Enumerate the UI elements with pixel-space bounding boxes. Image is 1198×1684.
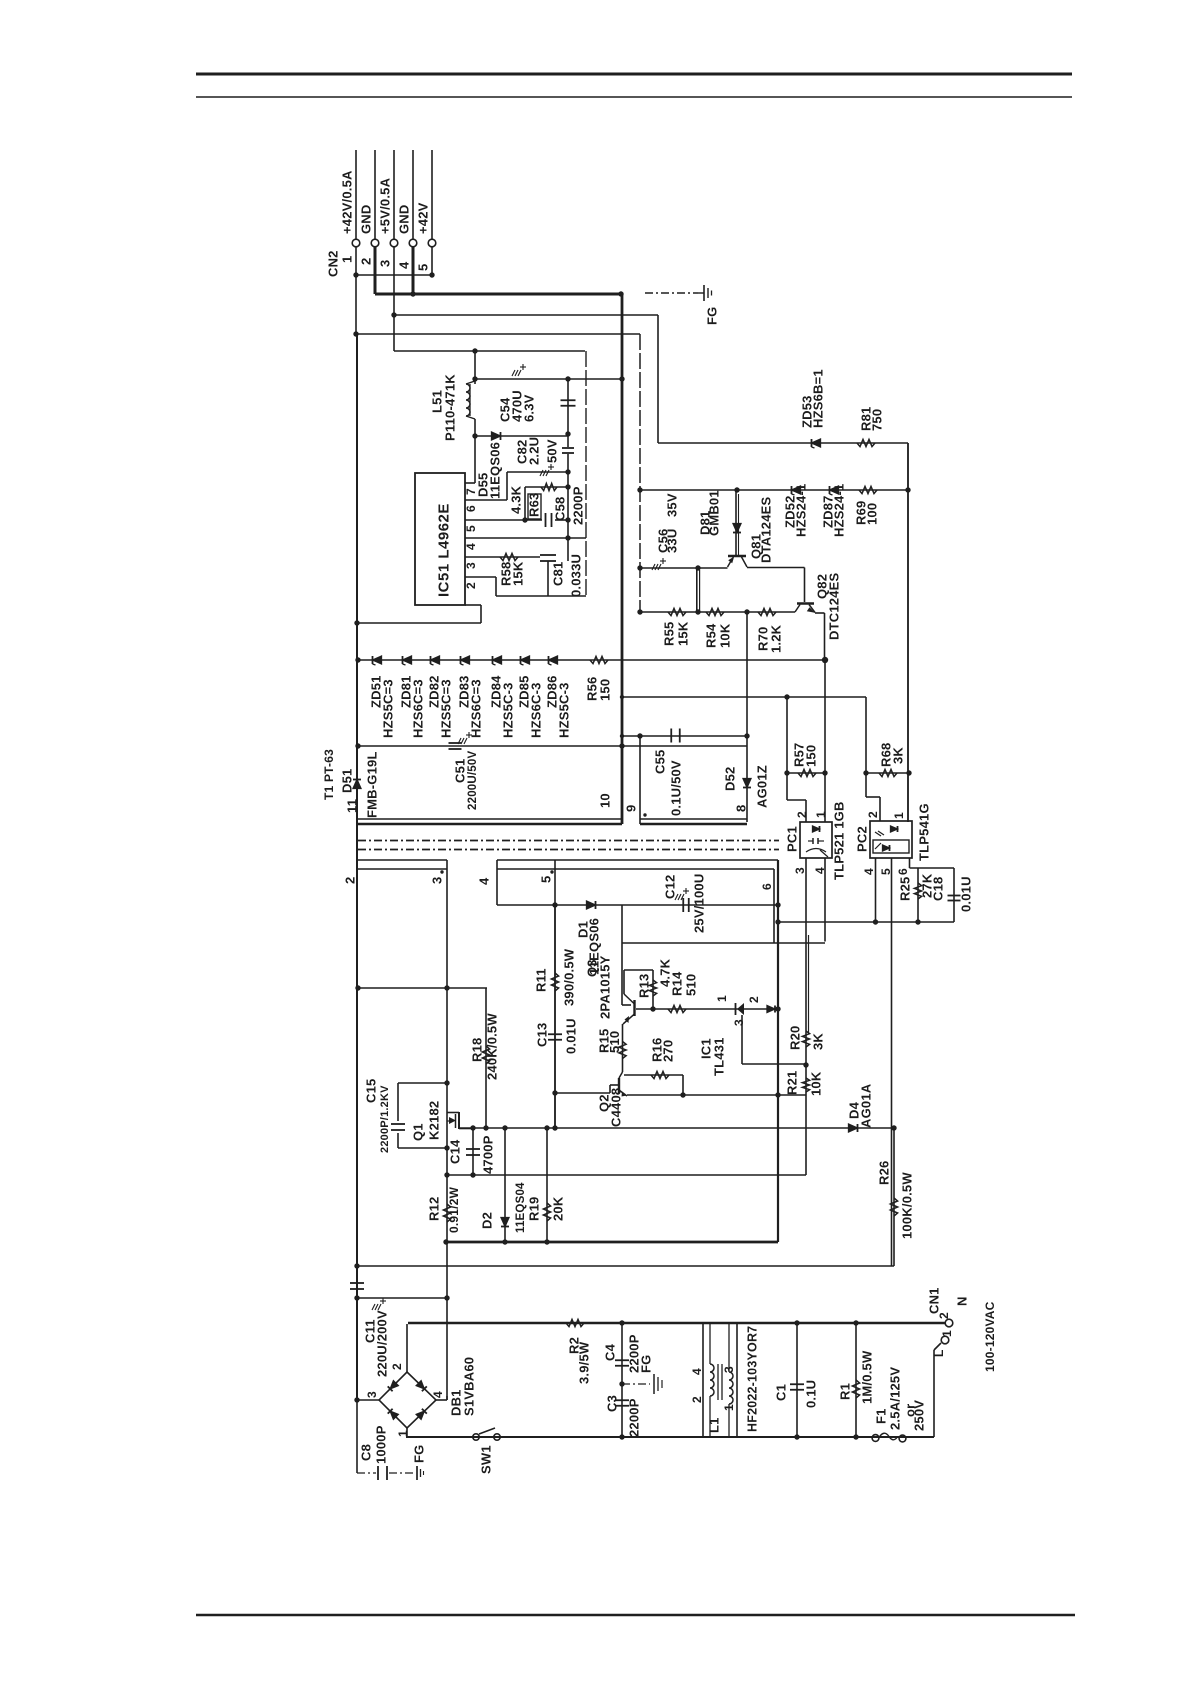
svg-text:FG: FG: [412, 1445, 427, 1463]
svg-text:R55: R55: [662, 622, 677, 646]
svg-text:2200P: 2200P: [627, 1334, 642, 1373]
svg-text:C8: C8: [359, 1444, 374, 1461]
svg-text:0.1U/50V: 0.1U/50V: [669, 760, 684, 816]
svg-text:2.5A/125V: 2.5A/125V: [888, 1367, 903, 1430]
svg-text:2200P: 2200P: [627, 1398, 642, 1437]
svg-text:GND: GND: [397, 205, 412, 235]
svg-text:2: 2: [343, 877, 358, 884]
svg-text:3.9/5W: 3.9/5W: [577, 1341, 592, 1384]
svg-text:4.3K: 4.3K: [509, 485, 524, 514]
svg-text:10: 10: [598, 793, 613, 808]
svg-text:2200U/50V: 2200U/50V: [467, 751, 479, 810]
svg-text:2200P/1.2KV: 2200P/1.2KV: [379, 1085, 391, 1153]
svg-text:N: N: [955, 1296, 970, 1306]
svg-text:HZS24-1: HZS24-1: [832, 484, 847, 537]
svg-text:D2: D2: [480, 1212, 495, 1229]
svg-text:4: 4: [862, 868, 876, 875]
svg-text:2: 2: [866, 811, 880, 818]
svg-text:IC51 L4962E: IC51 L4962E: [435, 503, 452, 597]
svg-text:C12: C12: [663, 875, 678, 899]
svg-text:10K: 10K: [809, 1071, 824, 1096]
svg-text:50V: 50V: [545, 439, 560, 463]
svg-text:HZS5C=3: HZS5C=3: [439, 679, 454, 738]
svg-text:150: 150: [598, 679, 613, 701]
svg-text:Q1: Q1: [411, 1123, 426, 1141]
svg-text:HZS6C=3: HZS6C=3: [411, 679, 426, 738]
svg-text:3: 3: [793, 867, 807, 874]
svg-text:HZS5C-3: HZS5C-3: [501, 682, 516, 738]
svg-text:HZS5C=3: HZS5C=3: [381, 679, 396, 738]
svg-text:1M/0.5W: 1M/0.5W: [860, 1350, 875, 1404]
svg-text:R12: R12: [427, 1197, 442, 1221]
svg-text:D51: D51: [340, 769, 355, 793]
svg-text:1000P: 1000P: [374, 1425, 389, 1464]
svg-text:P110-471K: P110-471K: [443, 374, 458, 441]
svg-text:3K: 3K: [891, 747, 906, 764]
svg-text:0.01U: 0.01U: [564, 1018, 579, 1054]
svg-text:100-120VAC: 100-120VAC: [983, 1301, 997, 1372]
svg-text:FG: FG: [705, 307, 720, 325]
svg-text:AG01A: AG01A: [859, 1083, 874, 1128]
svg-text:GND: GND: [359, 205, 374, 235]
svg-text:DTC124ES: DTC124ES: [827, 573, 842, 640]
svg-text:R20: R20: [788, 1026, 803, 1050]
svg-text:R19: R19: [527, 1197, 542, 1221]
svg-text:C3: C3: [605, 1395, 620, 1412]
svg-text:1: 1: [722, 1404, 736, 1411]
svg-text:2.2U: 2.2U: [527, 437, 542, 465]
svg-text:HZS24-1: HZS24-1: [794, 484, 809, 537]
svg-text:R25: R25: [898, 877, 913, 901]
svg-text:2: 2: [795, 811, 809, 818]
svg-text:220U/200V: 220U/200V: [375, 1310, 390, 1377]
svg-text:4: 4: [397, 261, 412, 269]
svg-text:K2182: K2182: [427, 1101, 442, 1140]
svg-text:C4: C4: [603, 1343, 618, 1361]
svg-text:HZS6C=3: HZS6C=3: [469, 679, 484, 738]
svg-text:0.033U: 0.033U: [569, 554, 584, 597]
svg-text:1: 1: [340, 256, 355, 263]
svg-text:150: 150: [804, 745, 819, 767]
svg-text:R21: R21: [785, 1071, 800, 1095]
svg-text:R1: R1: [838, 1383, 853, 1400]
svg-text:3K: 3K: [811, 1033, 826, 1050]
svg-text:4: 4: [464, 543, 478, 550]
svg-text:3: 3: [365, 1391, 379, 1398]
svg-text:20K: 20K: [551, 1196, 566, 1221]
svg-text:8: 8: [734, 805, 749, 812]
svg-text:0.91/2W: 0.91/2W: [447, 1186, 461, 1233]
svg-text:4: 4: [477, 877, 492, 885]
svg-text:5: 5: [539, 876, 554, 883]
svg-text:1.2K: 1.2K: [769, 624, 784, 653]
svg-text:250V: 250V: [912, 1400, 927, 1431]
svg-text:0.1U: 0.1U: [804, 1380, 819, 1408]
svg-text:3: 3: [464, 562, 478, 569]
svg-text:6: 6: [760, 883, 774, 890]
svg-text:+5V/0.5A: +5V/0.5A: [378, 177, 393, 234]
svg-text:T1 PT-63: T1 PT-63: [322, 749, 336, 800]
svg-text:C13: C13: [535, 1023, 550, 1047]
svg-text:11EQS06: 11EQS06: [488, 442, 503, 499]
svg-text:3: 3: [732, 1019, 746, 1026]
svg-text:5: 5: [464, 525, 478, 532]
svg-text:5: 5: [416, 264, 431, 271]
svg-text:6: 6: [464, 505, 478, 512]
svg-text:F1: F1: [874, 1408, 889, 1424]
svg-text:35V: 35V: [665, 493, 680, 517]
svg-text:S1VBA60: S1VBA60: [462, 1357, 477, 1416]
svg-text:6.3V: 6.3V: [522, 394, 537, 422]
svg-text:240K/0.5W: 240K/0.5W: [485, 1013, 500, 1080]
svg-text:2200P: 2200P: [571, 486, 586, 525]
svg-text:PC1: PC1: [785, 826, 800, 852]
svg-text:1: 1: [940, 1330, 954, 1337]
svg-text:750: 750: [870, 409, 885, 431]
svg-text:10K: 10K: [718, 623, 733, 648]
svg-text:PC2: PC2: [855, 826, 870, 852]
svg-text:100K/0.5W: 100K/0.5W: [900, 1172, 915, 1239]
svg-text:9: 9: [624, 805, 639, 812]
svg-text:R26: R26: [877, 1161, 892, 1185]
svg-text:3: 3: [378, 260, 393, 267]
svg-text:1: 1: [715, 995, 729, 1002]
svg-text:C1: C1: [774, 1384, 789, 1401]
svg-text:4700P: 4700P: [481, 1135, 496, 1174]
svg-text:L1: L1: [707, 1417, 722, 1433]
svg-text:2: 2: [464, 582, 478, 589]
svg-text:2: 2: [747, 996, 761, 1003]
svg-text:2: 2: [690, 1396, 704, 1403]
svg-text:TLP541G: TLP541G: [917, 803, 932, 861]
svg-text:D52: D52: [723, 767, 738, 791]
svg-text:AG01Z: AG01Z: [755, 765, 770, 808]
svg-text:4: 4: [431, 1391, 445, 1398]
svg-text:HZS6C-3: HZS6C-3: [529, 682, 544, 738]
svg-text:2PA1015Y: 2PA1015Y: [598, 955, 613, 1019]
svg-text:R18: R18: [470, 1038, 485, 1062]
svg-text:C4408: C4408: [609, 1088, 624, 1127]
svg-text:HZS6B=1: HZS6B=1: [811, 369, 826, 428]
svg-text:390/0.5W: 390/0.5W: [562, 948, 577, 1006]
svg-text:R14: R14: [670, 971, 685, 996]
svg-text:3: 3: [430, 877, 445, 884]
svg-text:L: L: [932, 1349, 946, 1357]
svg-text:C58: C58: [553, 497, 568, 521]
svg-text:R13: R13: [637, 974, 652, 998]
svg-text:SW1: SW1: [479, 1445, 494, 1474]
svg-text:CN1: CN1: [927, 1287, 942, 1314]
svg-text:6: 6: [896, 868, 910, 875]
svg-text:R11: R11: [534, 968, 549, 992]
svg-text:11: 11: [345, 799, 360, 813]
svg-text:TLP521 1GB: TLP521 1GB: [832, 801, 847, 880]
svg-text:4: 4: [690, 1368, 704, 1375]
svg-text:C18: C18: [931, 877, 946, 901]
svg-text:11EQS04: 11EQS04: [515, 1182, 527, 1233]
svg-text:CN2: CN2: [326, 250, 341, 277]
svg-text:15K: 15K: [676, 621, 691, 646]
svg-text:C51: C51: [453, 759, 468, 783]
svg-text:1: 1: [396, 1430, 410, 1437]
svg-text:33U: 33U: [665, 529, 680, 553]
svg-text:2: 2: [937, 1312, 951, 1319]
svg-text:C55: C55: [653, 750, 668, 774]
svg-text:GMB01: GMB01: [707, 490, 722, 536]
svg-text:25V/100U: 25V/100U: [692, 874, 707, 933]
svg-text:2: 2: [359, 258, 374, 265]
svg-text:15K: 15K: [511, 561, 526, 586]
svg-text:C14: C14: [448, 1139, 463, 1164]
svg-text:C15: C15: [364, 1079, 379, 1103]
svg-text:2: 2: [390, 1363, 404, 1370]
svg-text:510: 510: [607, 1031, 622, 1053]
svg-text:3: 3: [722, 1366, 736, 1373]
svg-text:0.01U: 0.01U: [959, 876, 974, 912]
svg-text:HF2022-103YOR7: HF2022-103YOR7: [745, 1326, 759, 1432]
svg-text:270: 270: [661, 1040, 676, 1062]
svg-text:HZS5C-3: HZS5C-3: [557, 682, 572, 738]
svg-text:1: 1: [892, 812, 906, 819]
svg-text:100: 100: [865, 503, 880, 525]
svg-text:FMB-G19L: FMB-G19L: [365, 751, 380, 818]
svg-text:TL431: TL431: [712, 1037, 727, 1076]
svg-text:510: 510: [684, 974, 699, 996]
svg-text:+42V/0.5A: +42V/0.5A: [340, 170, 355, 234]
svg-text:C81: C81: [551, 562, 566, 586]
svg-text:1: 1: [814, 811, 828, 818]
svg-text:DTA124ES: DTA124ES: [759, 496, 774, 563]
svg-text:R63: R63: [527, 493, 542, 517]
svg-text:R54: R54: [704, 623, 719, 648]
svg-text:+42V: +42V: [416, 202, 431, 234]
